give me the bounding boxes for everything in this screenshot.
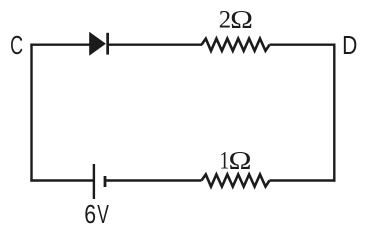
svg-text:Ω: Ω — [229, 147, 252, 175]
diode — [89, 32, 109, 56]
wire top from C corner to diode anode — [30, 44, 90, 46]
battery 6V — [93, 164, 107, 199]
svg-text:D: D — [342, 32, 357, 61]
wire left vertical C to battery corner — [30, 44, 32, 182]
wire right vertical D to bottom corner — [333, 44, 335, 182]
svg-text:6: 6 — [84, 200, 96, 228]
wire resistor 1ohm to battery positive plate — [105, 179, 202, 181]
wire battery negative plate to bottom left corner — [30, 179, 93, 181]
resistor 2ohm zigzag — [202, 39, 270, 51]
wire resistor 2ohm to D corner — [270, 44, 336, 46]
svg-text:V: V — [97, 199, 109, 228]
resistor 1ohm zigzag — [202, 174, 270, 186]
wire diode cathode to resistor 2ohm — [109, 44, 203, 46]
svg-text:C: C — [10, 31, 23, 60]
svg-text:Ω: Ω — [230, 6, 253, 34]
wire bottom right corner to resistor 1ohm — [270, 179, 336, 181]
